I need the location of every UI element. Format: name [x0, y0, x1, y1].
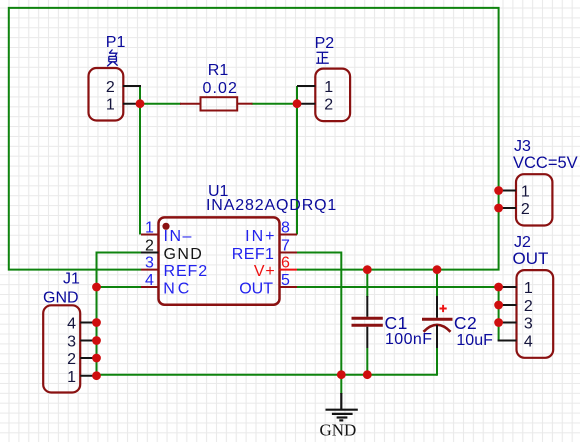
svg-text:1: 1 [67, 369, 76, 386]
svg-text:1: 1 [521, 183, 530, 200]
svg-text:4: 4 [67, 316, 76, 333]
wire: P2 to U1 pin8 vertical [296, 86, 298, 235]
U1 pin number 1 [145, 220, 154, 237]
wire: R1 left horizontal [139, 103, 181, 105]
svg-text:10uF: 10uF [456, 332, 493, 349]
J3 pin 1 stub [498, 190, 516, 192]
label R1 [208, 62, 229, 79]
U1 pin1 dot marker [162, 223, 169, 230]
label P1 net name "negative" hanzi [107, 50, 117, 67]
connector P2 [297, 69, 350, 122]
svg-text:3: 3 [67, 334, 76, 351]
label J3 net VCC=5V [513, 154, 578, 172]
svg-text:V+: V+ [254, 263, 276, 280]
J2 pin 3 stub [498, 322, 517, 324]
junction dot V+/C1 [363, 265, 372, 274]
U1 pin name V+ [254, 263, 276, 280]
U1 pin number 4 [145, 272, 154, 289]
resistor R1 [180, 97, 253, 110]
svg-text:3: 3 [145, 255, 154, 272]
wire: GND bottom rail [97, 374, 438, 376]
label U1 value INA282AQDRQ1 [206, 197, 337, 214]
junction dot NC branch [92, 283, 101, 292]
wire: NC pin4 horizontal [97, 286, 142, 288]
svg-text:1: 1 [524, 280, 533, 297]
svg-text:GND: GND [43, 290, 79, 307]
J2 pin 1 stub [498, 286, 517, 288]
ground symbol [326, 393, 358, 420]
svg-text:R1: R1 [208, 62, 229, 79]
wire: VCC/REF2 border net [9, 8, 499, 270]
U1 pin name GND [164, 246, 204, 263]
connector J2 [498, 270, 554, 358]
svg-text:REF2: REF2 [164, 263, 209, 280]
junction dot J1 pin4 [92, 318, 101, 327]
svg-text:100nF: 100nF [385, 331, 432, 348]
svg-text:IN+: IN+ [245, 228, 276, 245]
svg-text:2: 2 [324, 97, 333, 114]
U1 pin name IN+ [245, 228, 276, 245]
label R1 value 0.02 [203, 80, 239, 97]
U1 pin 3 stub [141, 269, 159, 271]
U1 pin 1 stub [141, 234, 159, 236]
label C2 value 10uF [456, 332, 493, 349]
junction dot J3 pin2 [494, 204, 503, 213]
svg-text:INA282AQDRQ1: INA282AQDRQ1 [206, 197, 337, 214]
label ground net GND [320, 421, 357, 440]
U1 pin 2 stub (GND, black) [141, 252, 159, 254]
U1 pin 4 stub [141, 286, 159, 288]
junction dot P1 pin1 [136, 99, 145, 108]
U1 pin name OUT [239, 280, 273, 297]
P1 pin 2 stub [123, 85, 141, 87]
wire: REF1 to GND rail [297, 253, 341, 375]
U1 pin number 2 [145, 238, 154, 255]
wire: R1 right horizontal [252, 103, 299, 105]
svg-text:6: 6 [281, 255, 290, 272]
label P1 [106, 34, 126, 51]
svg-text:J3: J3 [514, 138, 531, 155]
svg-text:IN–: IN– [164, 228, 193, 245]
wire: J2 vertical bus [498, 287, 500, 341]
J1 pin 1 stub [80, 375, 97, 377]
J1 pin 4 stub [80, 322, 97, 324]
wire: P1-R1-P2 shunt net left vertical [139, 86, 141, 235]
P2 pin 2 stub [297, 103, 315, 105]
svg-text:1: 1 [145, 220, 154, 237]
U1 pin name IN- [164, 228, 193, 245]
junction dot J1 pin1 [92, 371, 101, 380]
wire: C2 bottom lead green [436, 348, 438, 376]
svg-text:0.02: 0.02 [203, 80, 239, 97]
junction dot J1 pin2 [92, 354, 101, 363]
svg-text:5: 5 [281, 272, 290, 289]
wire: C1 top lead green [366, 270, 368, 297]
U1 pin name NC [163, 280, 192, 297]
svg-text:REF1: REF1 [232, 246, 275, 263]
U1 pin name REF1 [232, 246, 275, 263]
P1 pin 1 stub [123, 103, 141, 105]
svg-text:2: 2 [521, 201, 530, 218]
svg-text:GND: GND [320, 421, 357, 440]
label C2 [454, 313, 477, 333]
label C1 [385, 313, 408, 333]
wire: OUT net horizontal [297, 286, 499, 288]
svg-text:2: 2 [67, 351, 76, 368]
junction dot rail/C1 [363, 370, 372, 379]
junction dot V+/C2 [433, 265, 442, 274]
capacitor C1 [352, 296, 383, 348]
U1 pin name REF2 [164, 263, 209, 280]
svg-text:3: 3 [524, 315, 533, 332]
label P2 net name "positive" hanzi [316, 52, 329, 63]
svg-text:4: 4 [145, 272, 154, 289]
svg-text:2: 2 [106, 79, 115, 96]
label C1 value 100nF [385, 331, 432, 348]
junction dot J2 pin2 [494, 301, 503, 310]
J1 pin 3 stub [80, 340, 97, 342]
label J2 net OUT [513, 249, 549, 268]
label J1 [63, 271, 80, 288]
U1 pin number 7 [281, 238, 290, 255]
svg-text:2: 2 [524, 298, 533, 315]
svg-text:NC: NC [163, 280, 192, 297]
U1 pin 5 stub [280, 286, 298, 288]
label U1 [208, 183, 229, 200]
junction dot J2 pin1 [494, 283, 503, 292]
label P2 [315, 35, 335, 52]
svg-text:P1: P1 [106, 34, 126, 51]
J1 pin 2 stub [80, 357, 97, 359]
svg-text:J1: J1 [63, 271, 80, 288]
U1 pin number 8 [281, 220, 290, 237]
svg-text:7: 7 [281, 238, 290, 255]
P2 pin 1 stub [297, 85, 315, 87]
U1 pin number 6 [281, 255, 290, 272]
J3 pin 2 stub [498, 207, 516, 209]
wire: C2 top lead green [436, 270, 438, 297]
connector J3 [498, 174, 553, 225]
U1 pin number 3 [145, 255, 154, 272]
junction dot J2 pin3 [494, 318, 503, 327]
J2 pin 2 stub [498, 304, 517, 306]
label J3 [514, 138, 531, 155]
J2 pin 4 stub [498, 340, 517, 342]
svg-text:2: 2 [145, 238, 154, 255]
capacitor C2 (polarized) [422, 296, 453, 348]
U1 pin number 5 [281, 272, 290, 289]
wire: ground symbol lead green [340, 375, 342, 394]
U1 pin 6 stub (V+, red) [280, 269, 298, 271]
wire: C1 bottom lead green [366, 348, 368, 375]
junction dot P2 pin2 [293, 99, 302, 108]
label J2 [514, 234, 531, 251]
svg-text:8: 8 [281, 220, 290, 237]
svg-text:GND: GND [164, 246, 204, 263]
junction dot J1 pin3 [92, 336, 101, 345]
junction dot J3 pin1 [494, 186, 503, 195]
U1 pin 8 stub [280, 234, 298, 236]
wire: GND net U1 pin2 horizontal [97, 253, 142, 376]
svg-text:P2: P2 [315, 35, 335, 52]
connector J1 [43, 305, 97, 392]
svg-text:C2: C2 [454, 313, 477, 333]
svg-text:OUT: OUT [513, 249, 549, 268]
op-amp U1 INA282AQDRQ1 body [159, 217, 280, 304]
svg-text:4: 4 [524, 333, 533, 350]
label J1 net GND [43, 290, 79, 307]
svg-text:1: 1 [106, 97, 115, 114]
C2 plus sign [440, 305, 447, 312]
svg-text:1: 1 [324, 79, 333, 96]
connector P1 [89, 68, 142, 121]
junction dot rail/ground [337, 370, 346, 379]
U1 pin 7 stub [280, 252, 298, 254]
svg-text:VCC=5V: VCC=5V [513, 154, 578, 172]
svg-text:OUT: OUT [239, 280, 273, 297]
